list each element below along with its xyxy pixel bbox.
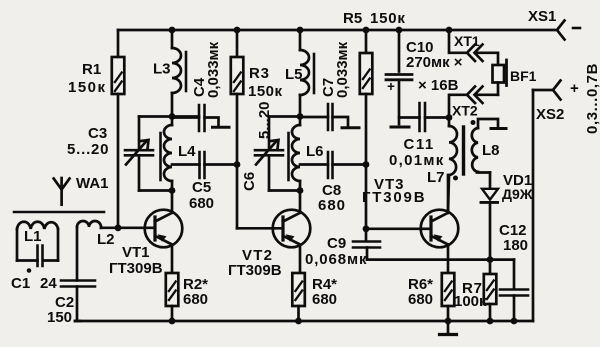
- svg-text:WA1: WA1: [76, 175, 109, 192]
- core of L4: [159, 133, 162, 180]
- label C7 value: [320, 41, 351, 98]
- svg-text:XT2: XT2: [452, 103, 478, 119]
- svg-text:680: 680: [189, 195, 214, 212]
- capacitor C11: [399, 116, 420, 119]
- resistor R3: [236, 30, 239, 57]
- svg-text:680: 680: [408, 291, 433, 308]
- wire VT3 base: [366, 227, 431, 230]
- svg-text:L5: L5: [285, 66, 303, 83]
- node L8 winding dot: [471, 120, 476, 125]
- wire L8 to VD1: [477, 171, 490, 174]
- svg-text:180: 180: [503, 237, 528, 254]
- svg-text:5...20: 5...20: [256, 101, 273, 139]
- chassis for L8: [491, 127, 506, 130]
- transistor VT1: [145, 210, 183, 248]
- svg-text:100к: 100к: [454, 293, 487, 310]
- svg-text:R1: R1: [82, 61, 101, 78]
- node tank2 bottom / collector VT2: [297, 187, 304, 194]
- node C8/R5: [363, 161, 370, 168]
- svg-text:BF1: BF1: [510, 68, 537, 84]
- chassis ground at bottom rail: [447, 321, 450, 334]
- wire VT2 base: [237, 227, 283, 230]
- svg-text:XT1: XT1: [454, 33, 480, 49]
- inductor L8 (transformer secondary): [472, 128, 478, 172]
- resistor R1: [117, 30, 120, 57]
- capacitor C9: [365, 229, 368, 240]
- svg-text:R3: R3: [249, 65, 270, 82]
- svg-text:C3: C3: [88, 125, 107, 142]
- wire tank2 top: [269, 115, 300, 118]
- svg-text:L4: L4: [178, 143, 196, 160]
- label C4 value: [191, 41, 222, 98]
- svg-text:L6: L6: [306, 143, 324, 160]
- svg-text:0,068мк: 0,068мк: [305, 251, 367, 268]
- connector XS1: [557, 21, 565, 40]
- earphone BF1: [493, 65, 505, 83]
- inductor L1: [17, 222, 58, 229]
- svg-text:ГТ309В: ГТ309В: [109, 260, 163, 277]
- svg-text:0,01мк: 0,01мк: [389, 152, 445, 169]
- node tank1 bottom / collector VT1: [169, 187, 176, 194]
- core of L6: [287, 133, 290, 180]
- svg-text:0,033мк: 0,033мк: [334, 41, 351, 98]
- antenna WA1: [60, 178, 63, 205]
- label C6: [241, 101, 273, 191]
- capacitor C8: [300, 163, 328, 166]
- svg-text:L3: L3: [153, 61, 171, 78]
- node top rail junctions: [169, 27, 453, 34]
- svg-text:C11: C11: [404, 136, 435, 153]
- svg-text:L7: L7: [427, 169, 445, 186]
- wire tank1 top: [139, 115, 199, 118]
- capacitor C6 (trimmer): [268, 117, 271, 150]
- chassis for C4: [213, 126, 230, 129]
- inductor L5: [299, 30, 302, 50]
- connector XT1: [449, 30, 467, 53]
- capacitor C5: [172, 163, 200, 166]
- svg-text:L1: L1: [24, 228, 42, 245]
- wire bottom common rail: [75, 320, 533, 323]
- node C11/XT2/L7: [446, 114, 453, 121]
- node C5/R3: [234, 161, 241, 168]
- capacitor C4: [172, 116, 199, 119]
- transistor VT2: [273, 210, 311, 248]
- capacitor C12: [513, 260, 516, 289]
- svg-text:R5: R5: [343, 10, 362, 27]
- svg-text:270мк ×: 270мк ×: [406, 54, 463, 71]
- svg-text:ГТ309В: ГТ309В: [362, 189, 426, 206]
- svg-text:150к: 150к: [370, 10, 406, 27]
- svg-text:0,3...0,7В: 0,3...0,7В: [584, 63, 600, 134]
- svg-text:VT1: VT1: [122, 244, 150, 261]
- inductor L6: [299, 117, 302, 126]
- svg-text:Д9Ж: Д9Ж: [502, 186, 533, 202]
- resistor R7: [489, 260, 492, 274]
- resistor R2: [166, 273, 179, 306]
- capacitor C1: [38, 246, 43, 267]
- svg-text:XS2: XS2: [536, 106, 564, 123]
- svg-text:150к: 150к: [248, 83, 283, 100]
- svg-text:C9: C9: [327, 235, 346, 252]
- wire tank2 bottom: [269, 189, 300, 192]
- node tank2 top: [297, 113, 304, 120]
- svg-text:150: 150: [47, 309, 72, 326]
- transistor VT3: [421, 210, 459, 248]
- chassis for C7: [342, 126, 359, 129]
- svg-text:150к: 150к: [68, 79, 107, 96]
- svg-text:C5: C5: [192, 179, 211, 196]
- node bottom rail junctions: [169, 318, 518, 325]
- wire top supply rail: [118, 29, 557, 32]
- svg-text:L2: L2: [97, 231, 115, 248]
- resistor R6: [442, 273, 455, 306]
- inductor L3: [171, 30, 174, 48]
- capacitor C2: [61, 281, 95, 287]
- svg-text:× 16В: × 16В: [418, 77, 459, 94]
- svg-text:24: 24: [40, 275, 57, 292]
- capacitor C7: [300, 116, 328, 119]
- svg-text:680: 680: [318, 197, 346, 214]
- resistor R4: [292, 273, 305, 306]
- node L7 winding dot: [453, 176, 458, 181]
- wire tank1 bottom: [139, 189, 172, 192]
- core of L3: [185, 52, 188, 91]
- svg-text:+: +: [570, 80, 579, 97]
- chassis for C10: [391, 126, 409, 129]
- capacitor C3 (trimmer): [138, 117, 141, 150]
- capacitor C10: [398, 30, 401, 72]
- svg-text:C6: C6: [241, 172, 258, 191]
- svg-text:0,033мк: 0,033мк: [205, 41, 222, 98]
- resistor R5: [365, 30, 368, 53]
- inductor L2: [77, 221, 101, 227]
- svg-text:ГТ309В: ГТ309В: [228, 262, 282, 279]
- node L1 winding dot: [27, 268, 32, 273]
- core of L5: [313, 54, 316, 93]
- svg-text:C1: C1: [11, 275, 30, 292]
- svg-text:+: +: [387, 79, 395, 94]
- wire C9 to R7/C12 node: [367, 258, 514, 261]
- svg-text:680: 680: [183, 291, 208, 308]
- transformer core L7/L8: [462, 127, 465, 174]
- connector XT2: [467, 87, 475, 104]
- diode VD1: [489, 173, 492, 189]
- inductor L4: [171, 117, 174, 126]
- svg-text:5...20: 5...20: [67, 141, 109, 158]
- inductor L7 (transformer primary): [448, 118, 451, 127]
- svg-text:L8: L8: [482, 142, 500, 159]
- node tank1 top: [169, 113, 176, 120]
- wire VT1 base: [101, 226, 155, 229]
- svg-text:680: 680: [312, 291, 337, 308]
- node R5/C9/base VT3: [363, 225, 370, 232]
- connector XS2: [533, 89, 553, 92]
- node VD1/R7: [487, 256, 494, 263]
- svg-text:XS1: XS1: [528, 8, 556, 25]
- wire R1/base node: [115, 224, 122, 231]
- ferrite core bar of magnetic antenna: [14, 211, 104, 214]
